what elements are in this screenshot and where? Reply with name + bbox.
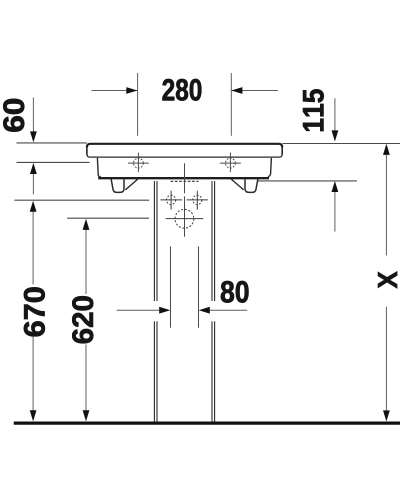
dimension X vertical line (385, 155, 387, 411)
dimension X top arrowhead (up) (383, 144, 390, 155)
centerline (vertical) (184, 163, 186, 237)
washbasin body bottom edge (thick) (98, 177, 269, 179)
label 80 (221, 281, 249, 303)
dimension 670 vertical line (32, 211, 34, 411)
dimension 280 left arrowhead (126, 87, 137, 94)
dimension 280 dimension-line with arrows (92, 90, 279, 92)
dimension 280 extension line left (137, 73, 139, 136)
dimension 60 upper line with down arrow (32, 98, 34, 132)
height ref line 620 (left) (67, 217, 149, 219)
dimension 115 upper line with down arrow (334, 98, 336, 130)
label X (rotated) (378, 272, 397, 289)
washbasin rim left edge (86, 147, 88, 155)
dimension 80 left arrowhead (159, 307, 170, 314)
washbasin body right wall (268, 158, 272, 177)
dimension 670 top arrowhead (up) (30, 201, 37, 212)
mounting hook right (U profile) (245, 179, 258, 193)
dimension 80 dimension line with arrows (117, 309, 248, 311)
label 115 (rotated) (303, 89, 324, 131)
dimension 80 extension line left (170, 246, 172, 327)
dimension 80 extension line right (198, 246, 200, 327)
gusset diagonal right (231, 179, 244, 190)
fixing hole right (dashed circle with crosshair) (220, 153, 241, 173)
basin top extension line right (283, 143, 400, 145)
washbasin rim top edge (thick, rounded corners) (87, 144, 282, 147)
washbasin rim right edge (281, 147, 283, 155)
dimension 280 right arrowhead (231, 87, 242, 94)
basin top extension line left (17, 142, 87, 144)
dimension 115 lower arrow with tail (334, 191, 336, 232)
pedestal right wall (double line) (212, 181, 215, 422)
label 60 (rotated) (3, 99, 24, 132)
label 280 (162, 79, 201, 101)
dimension 620 bottom arrowhead (down) (83, 410, 90, 421)
label 620 (rotated) (72, 296, 93, 343)
dimension 60 lower arrow with tail (32, 174, 34, 194)
fixing hole left (dashed circle with crosshair) (128, 153, 149, 173)
mounting hook left (U profile) (111, 179, 124, 193)
dimension 670 bottom arrowhead (down) (30, 410, 37, 421)
height ref line 670 (left) (14, 199, 149, 201)
dimension X bottom arrowhead (down) (383, 410, 390, 421)
label 670 (rotated) (24, 287, 45, 336)
hole-height extension line (left, 60 lower ref) (17, 161, 90, 163)
gusset diagonal left (125, 179, 138, 190)
pedestal drain hole (large dashed circle with crosshair) (166, 209, 204, 228)
hidden drain opening top edge (dashed) (171, 180, 199, 182)
pedestal fixing hole right (dashed circle with crosshair) (187, 191, 208, 210)
floor line (14, 422, 400, 425)
pedestal left wall (double line) (154, 181, 157, 422)
pedestal fixing hole left (dashed circle with crosshair) (160, 191, 182, 210)
dimension 280 extension line right (230, 73, 232, 136)
dimension 620 vertical line (85, 230, 87, 412)
under-basin extension line right (115 lower ref) (258, 180, 357, 182)
washbasin body left wall (97, 158, 101, 177)
dimension 620 top arrowhead (up) (83, 219, 90, 230)
washbasin rim bottom edge (87, 154, 282, 157)
dimension 80 right arrowhead (199, 307, 210, 314)
